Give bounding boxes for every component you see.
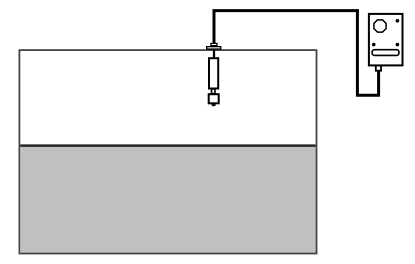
controller screw mid-left [372,43,376,47]
sensor mounting nut [211,43,217,45]
controller terminal stub [376,65,381,70]
controller screw mid-right [396,43,400,47]
controller display slot [372,50,399,56]
tank [19,50,316,253]
liquid fill [20,146,315,252]
wire from sensor to controller [214,11,379,96]
sensor float weight [209,94,219,103]
sensor upper stem [213,50,215,59]
sensor bottom nub [211,104,216,106]
sensor lower stem [212,89,216,94]
controller screw top-right [396,19,400,23]
sensor body (displacer tube) [209,58,218,88]
controller box [369,14,403,66]
sensor flange plate [207,47,221,49]
liquid surface line [20,144,315,147]
controller lamp (octagon) [374,20,386,32]
